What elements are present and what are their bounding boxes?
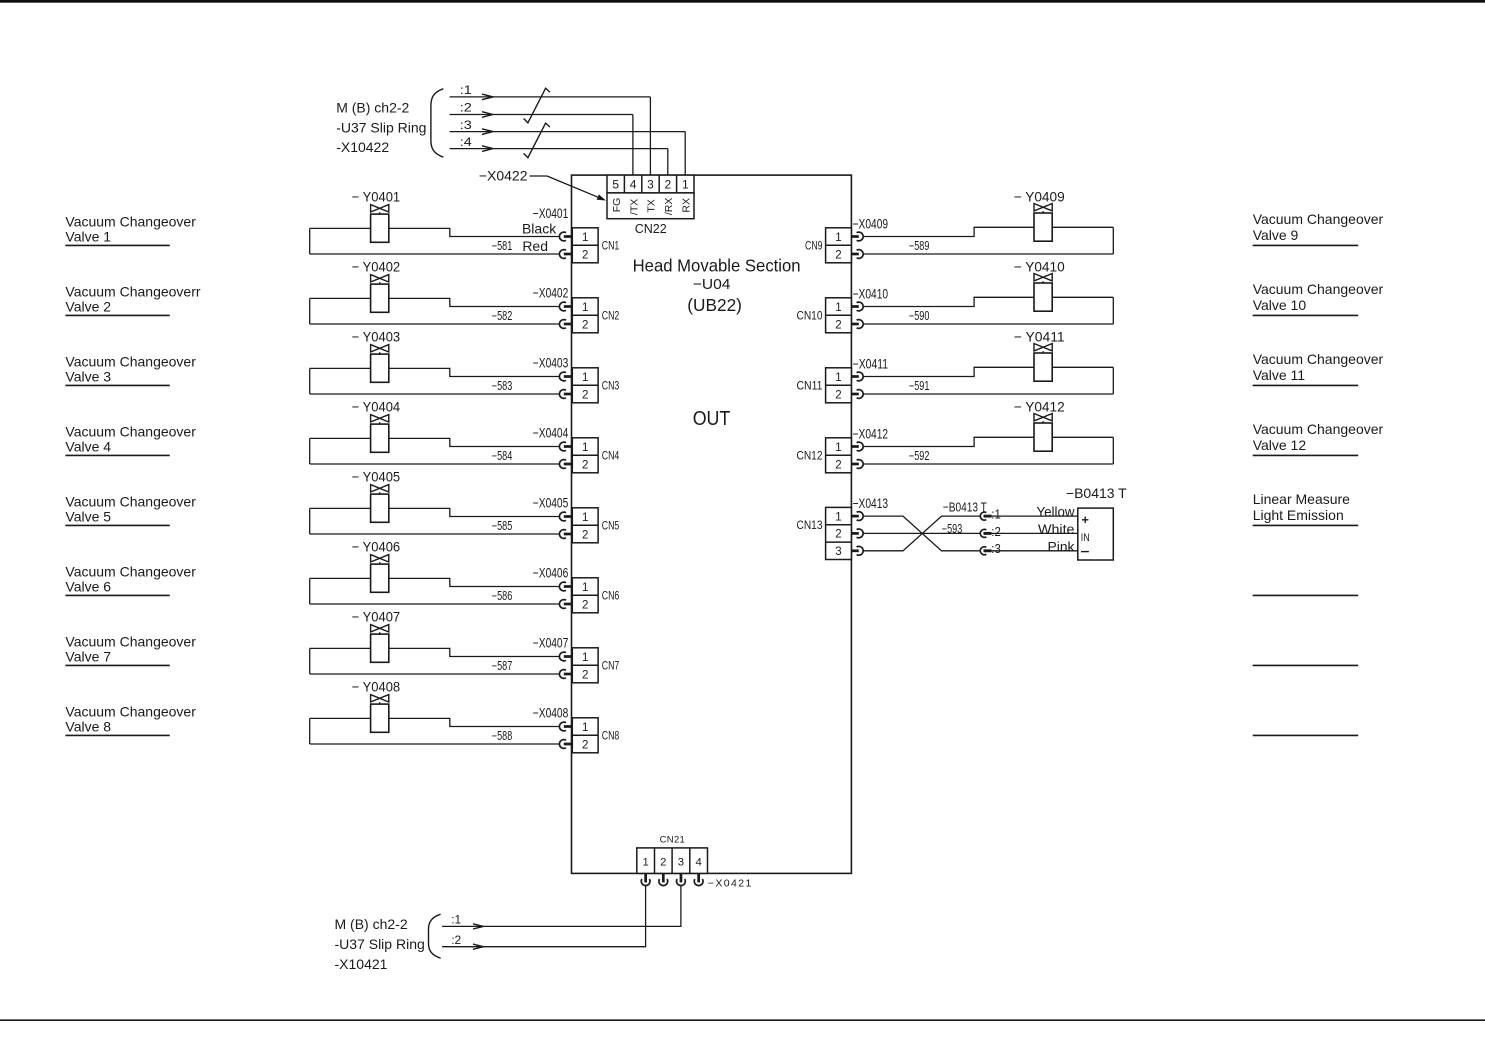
svg-text:Valve 6: Valve 6 xyxy=(65,578,111,594)
svg-text:4: 4 xyxy=(630,178,637,192)
svg-text:-X10422: -X10422 xyxy=(336,139,389,155)
svg-text:−X0401: −X0401 xyxy=(533,206,569,221)
svg-text:TX: TX xyxy=(646,199,658,212)
svg-text::1: :1 xyxy=(460,85,472,97)
svg-text:− Y0407: − Y0407 xyxy=(352,608,401,624)
svg-text::2: :2 xyxy=(451,933,461,947)
svg-text:−X0406: −X0406 xyxy=(533,565,569,580)
svg-text:2: 2 xyxy=(582,599,588,611)
svg-text:1: 1 xyxy=(835,302,841,314)
svg-text:1: 1 xyxy=(835,372,841,384)
svg-text:CN22: CN22 xyxy=(635,222,667,236)
svg-text:Vacuum Changeover: Vacuum Changeover xyxy=(65,354,196,370)
svg-text:−585: −585 xyxy=(492,519,513,533)
svg-text:1: 1 xyxy=(835,232,841,244)
svg-text:2: 2 xyxy=(835,389,841,401)
svg-text:− Y0403: − Y0403 xyxy=(352,328,401,344)
svg-text:Valve 12: Valve 12 xyxy=(1253,437,1307,453)
svg-text:Head Movable Section: Head Movable Section xyxy=(633,255,801,275)
svg-text:− Y0408: − Y0408 xyxy=(352,678,401,694)
svg-text:Yellow: Yellow xyxy=(1037,504,1076,520)
svg-text:−X0409: −X0409 xyxy=(853,217,889,232)
svg-text:−X0410: −X0410 xyxy=(853,287,889,302)
svg-text::1: :1 xyxy=(451,913,461,927)
svg-text:5: 5 xyxy=(612,178,619,192)
svg-text:− Y0406: − Y0406 xyxy=(352,538,401,554)
svg-text:1: 1 xyxy=(835,442,841,454)
svg-text:Valve 1: Valve 1 xyxy=(65,228,111,244)
svg-text:−582: −582 xyxy=(492,309,513,323)
svg-text:White: White xyxy=(1038,521,1075,537)
svg-text:CN9: CN9 xyxy=(805,241,823,253)
svg-text:2: 2 xyxy=(835,529,841,541)
svg-text:Vacuum Changeover: Vacuum Changeover xyxy=(65,424,196,440)
svg-text:Valve 9: Valve 9 xyxy=(1253,227,1299,243)
svg-text:2: 2 xyxy=(660,856,666,868)
svg-text:3: 3 xyxy=(835,546,841,558)
svg-text:CN2: CN2 xyxy=(602,311,620,323)
svg-text:2: 2 xyxy=(582,389,588,401)
svg-text::2: :2 xyxy=(460,103,472,115)
svg-text:−589: −589 xyxy=(909,239,930,253)
svg-text:CN7: CN7 xyxy=(602,661,620,673)
svg-text:Valve 4: Valve 4 xyxy=(65,438,111,454)
svg-text::3: :3 xyxy=(460,120,472,132)
svg-text:3: 3 xyxy=(678,856,684,868)
svg-text:1: 1 xyxy=(582,232,588,244)
svg-text:FG: FG xyxy=(611,198,623,213)
svg-text:(UB22): (UB22) xyxy=(687,295,742,315)
svg-text:−590: −590 xyxy=(909,309,930,323)
svg-text:CN5: CN5 xyxy=(602,521,620,533)
svg-text:−X0404: −X0404 xyxy=(533,425,569,440)
svg-text:2: 2 xyxy=(582,529,588,541)
svg-text:CN8: CN8 xyxy=(602,731,620,743)
svg-text:1: 1 xyxy=(682,178,689,192)
svg-text:2: 2 xyxy=(582,459,588,471)
svg-text:Valve 2: Valve 2 xyxy=(65,298,111,314)
svg-text:− Y0410: − Y0410 xyxy=(1014,258,1065,274)
svg-text:− Y0405: − Y0405 xyxy=(352,468,401,484)
svg-text:2: 2 xyxy=(582,669,588,681)
svg-text:Vacuum Changeover: Vacuum Changeover xyxy=(65,564,196,580)
svg-text:3: 3 xyxy=(647,178,654,192)
svg-text:Light Emission: Light Emission xyxy=(1253,507,1344,523)
svg-text:CN21: CN21 xyxy=(660,835,686,846)
svg-text:-X10421: -X10421 xyxy=(335,956,388,972)
svg-text:−588: −588 xyxy=(492,729,513,743)
svg-text:2: 2 xyxy=(835,249,841,261)
svg-text:1: 1 xyxy=(582,512,588,524)
svg-text:OUT: OUT xyxy=(693,408,731,430)
svg-text:−X0421: −X0421 xyxy=(708,878,753,890)
svg-text:2: 2 xyxy=(582,249,588,261)
svg-text:M (B) ch2-2: M (B) ch2-2 xyxy=(335,916,408,932)
svg-text::3: :3 xyxy=(991,541,1001,556)
svg-text:1: 1 xyxy=(835,511,841,523)
svg-text:1: 1 xyxy=(582,722,588,734)
svg-text:1: 1 xyxy=(582,442,588,454)
svg-text:Linear Measure: Linear Measure xyxy=(1253,491,1350,507)
svg-text:4: 4 xyxy=(696,856,702,868)
svg-text:Valve 11: Valve 11 xyxy=(1253,367,1306,383)
svg-text:Red: Red xyxy=(522,238,548,254)
svg-text:Black: Black xyxy=(522,221,557,237)
svg-text:−591: −591 xyxy=(909,379,930,393)
svg-text:/RX: /RX xyxy=(663,198,675,216)
svg-text:−581: −581 xyxy=(492,239,513,253)
svg-text:Pink: Pink xyxy=(1048,538,1076,554)
svg-text:−583: −583 xyxy=(492,379,513,393)
svg-text:Vacuum Changeover: Vacuum Changeover xyxy=(1253,281,1384,297)
svg-text:CN4: CN4 xyxy=(602,451,620,463)
svg-text::4: :4 xyxy=(460,137,473,149)
svg-text:−586: −586 xyxy=(492,589,513,603)
svg-text:Valve 5: Valve 5 xyxy=(65,508,111,524)
svg-text:-U37 Slip Ring: -U37 Slip Ring xyxy=(335,936,425,952)
svg-text:CN1: CN1 xyxy=(602,241,620,253)
svg-text:Vacuum Changeoverr: Vacuum Changeoverr xyxy=(65,284,200,300)
svg-text:Valve 7: Valve 7 xyxy=(65,648,111,664)
svg-text:−X0408: −X0408 xyxy=(533,705,569,720)
svg-text::1: :1 xyxy=(991,507,1001,522)
svg-text:−X0405: −X0405 xyxy=(533,495,569,510)
svg-text:1: 1 xyxy=(582,372,588,384)
svg-text:2: 2 xyxy=(665,178,672,192)
svg-text:−X0413: −X0413 xyxy=(853,496,889,511)
svg-text:−592: −592 xyxy=(909,449,930,463)
svg-text:1: 1 xyxy=(582,582,588,594)
svg-text:CN10: CN10 xyxy=(797,311,823,323)
svg-text:CN11: CN11 xyxy=(797,381,823,393)
svg-text:-U37 Slip Ring: -U37 Slip Ring xyxy=(336,119,426,135)
svg-text:1: 1 xyxy=(643,856,649,868)
svg-text:IN: IN xyxy=(1081,532,1090,544)
svg-text:2: 2 xyxy=(582,319,588,331)
svg-text:−X0407: −X0407 xyxy=(533,635,569,650)
svg-text:− Y0401: − Y0401 xyxy=(352,188,401,204)
svg-text:−B0413 T: −B0413 T xyxy=(943,499,987,514)
svg-text:RX: RX xyxy=(681,198,693,213)
svg-text:Vacuum Changeover: Vacuum Changeover xyxy=(65,634,196,650)
svg-text:Vacuum Changeover: Vacuum Changeover xyxy=(65,214,196,230)
svg-text:1: 1 xyxy=(582,302,588,314)
svg-text:CN12: CN12 xyxy=(797,451,823,463)
svg-text:/TX: /TX xyxy=(628,199,640,215)
svg-text:−B0413 T: −B0413 T xyxy=(1066,485,1127,501)
svg-text:−593: −593 xyxy=(942,522,963,536)
svg-text:2: 2 xyxy=(835,459,841,471)
svg-text:−X0422: −X0422 xyxy=(479,167,528,183)
svg-text:CN13: CN13 xyxy=(797,520,823,532)
svg-text::2: :2 xyxy=(991,524,1001,539)
svg-text:2: 2 xyxy=(835,319,841,331)
svg-text:Valve 3: Valve 3 xyxy=(65,368,111,384)
svg-text:Vacuum Changeover: Vacuum Changeover xyxy=(65,494,196,510)
svg-text:−X0403: −X0403 xyxy=(533,355,569,370)
svg-text:−587: −587 xyxy=(492,659,513,673)
svg-text:Vacuum Changeover: Vacuum Changeover xyxy=(1253,351,1384,367)
svg-text:− Y0404: − Y0404 xyxy=(352,398,401,414)
svg-text:CN6: CN6 xyxy=(602,591,620,603)
svg-text:−584: −584 xyxy=(492,449,513,463)
svg-text:2: 2 xyxy=(582,739,588,751)
svg-text:Vacuum Changeover: Vacuum Changeover xyxy=(65,704,196,720)
svg-text:CN3: CN3 xyxy=(602,381,620,393)
svg-text:1: 1 xyxy=(582,652,588,664)
svg-text:−X0412: −X0412 xyxy=(853,427,889,442)
svg-text:Vacuum Changeover: Vacuum Changeover xyxy=(1253,421,1384,437)
svg-text:− Y0409: − Y0409 xyxy=(1014,188,1065,204)
svg-text:− Y0412: − Y0412 xyxy=(1014,398,1065,414)
svg-text:− Y0411: − Y0411 xyxy=(1014,328,1065,344)
svg-text:Vacuum Changeover: Vacuum Changeover xyxy=(1253,211,1384,227)
svg-text:Valve 10: Valve 10 xyxy=(1253,297,1307,313)
svg-text:− Y0402: − Y0402 xyxy=(352,258,401,274)
svg-text:M (B) ch2-2: M (B) ch2-2 xyxy=(336,99,409,115)
svg-text:−U04: −U04 xyxy=(693,276,731,293)
svg-text:Valve 8: Valve 8 xyxy=(65,718,111,734)
svg-text:−X0402: −X0402 xyxy=(533,285,569,300)
svg-text:−X0411: −X0411 xyxy=(853,357,889,372)
